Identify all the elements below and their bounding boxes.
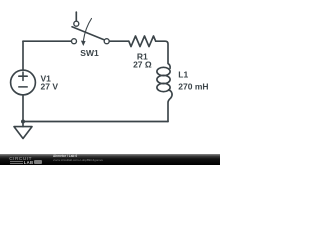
resistor R1 (129, 36, 156, 47)
footer watermark bar (0, 154, 220, 165)
svg-text:27 Ω: 27 Ω (133, 59, 152, 69)
wire V1 bottom lead to junction (22, 95, 24, 122)
terminal right (104, 39, 109, 44)
ground (14, 127, 32, 139)
wire top-left horizontal to switch left terminal (23, 40, 71, 42)
stub of top throw (75, 12, 77, 21)
junction node (21, 120, 25, 124)
wire bottom horizontal (23, 121, 168, 123)
action arrow arc (83, 19, 91, 41)
terminal left (72, 39, 77, 44)
svg-text:27 V: 27 V (41, 82, 59, 92)
CircuitLab logo (9, 156, 32, 161)
wire switch right terminal to resistor (109, 40, 128, 42)
wire junction to ground (22, 122, 24, 127)
arrowhead of switch arrow (81, 41, 86, 46)
voltage source V1 (11, 70, 36, 95)
switch SW1 (72, 12, 110, 44)
lever (72, 27, 104, 40)
svg-text:SW1: SW1 (80, 48, 99, 58)
svg-text:L1: L1 (178, 70, 188, 80)
svg-text:270 mH: 270 mH (178, 81, 208, 91)
wire left vertical (V1 top lead to top-left corner) (22, 41, 24, 70)
wire resistor to top-right corner and down to inductor (156, 41, 170, 68)
inductor L1 (157, 67, 172, 121)
terminal top (74, 21, 79, 26)
